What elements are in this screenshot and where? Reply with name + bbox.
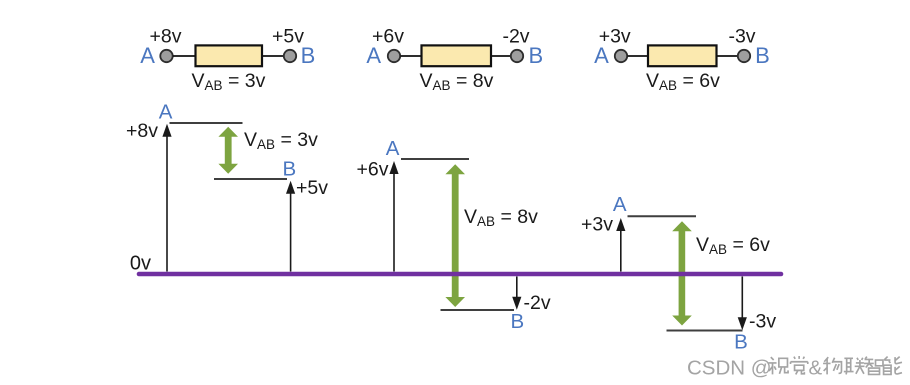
svg-text:B: B (283, 158, 297, 181)
svg-text:+3v: +3v (599, 26, 631, 48)
svg-text:+8v: +8v (150, 26, 182, 48)
svg-text:B: B (301, 43, 316, 68)
svg-text:+3v: +3v (581, 214, 613, 236)
wire circuit 2 right (491, 55, 511, 57)
B level line group 3 (667, 330, 743, 332)
svg-text:CSDN @: CSDN @ (687, 357, 772, 380)
svg-text:B: B (734, 331, 748, 354)
wire circuit 3 right (717, 55, 739, 57)
svg-text:VAB = 3v: VAB = 3v (192, 70, 266, 93)
svg-text:+5v: +5v (296, 177, 328, 199)
svg-text:A: A (386, 137, 400, 160)
watermark glyph lian (844, 358, 865, 375)
resistor R3 (648, 45, 717, 66)
svg-text:B: B (510, 310, 524, 333)
wire circuit 2 left (401, 55, 423, 57)
resistor R2 (422, 45, 492, 66)
+5v arrow group 1 (290, 191, 292, 272)
A level line group 1 (170, 122, 243, 124)
watermark glyph jue (791, 356, 808, 374)
svg-text:A: A (613, 193, 627, 216)
resistor R1 (196, 45, 263, 66)
svg-text:B: B (528, 43, 543, 68)
watermark glyph wu (823, 357, 841, 374)
svg-text:0v: 0v (130, 253, 151, 275)
watermark glyph zhi (864, 357, 883, 375)
terminal A circuit 3 (615, 50, 627, 62)
wire circuit 1 left (173, 55, 196, 57)
svg-text:VAB = 6v: VAB = 6v (696, 234, 770, 257)
green arrow VAB 6v group 3 (672, 221, 692, 325)
svg-text:-3v: -3v (749, 311, 776, 333)
terminal A circuit 2 (388, 50, 400, 62)
svg-text:+5v: +5v (272, 26, 304, 48)
+8v arrow group 1 (166, 134, 168, 272)
svg-text:-2v: -2v (524, 292, 551, 314)
svg-text:VAB = 8v: VAB = 8v (420, 70, 494, 93)
terminal B circuit 3 (738, 50, 750, 62)
svg-text:-2v: -2v (502, 26, 529, 48)
watermark glyph shi (769, 357, 789, 374)
wire circuit 1 right (262, 55, 284, 57)
terminal B circuit 2 (511, 50, 523, 62)
svg-text:VAB = 6v: VAB = 6v (646, 70, 720, 93)
svg-text:-3v: -3v (728, 26, 755, 48)
watermark glyph neng (884, 357, 902, 375)
terminal A circuit 1 (160, 50, 172, 62)
B level line group 1 (214, 178, 287, 180)
svg-text:VAB = 3v: VAB = 3v (244, 129, 318, 152)
+6v arrow group 2 (393, 172, 395, 272)
terminal B circuit 1 (284, 50, 296, 62)
green arrow VAB 3v group 1 (218, 127, 238, 174)
wire circuit 3 left (628, 55, 650, 57)
A level line group 2 (401, 158, 469, 160)
-2v arrow group 2 (516, 277, 518, 300)
-3v arrow group 3 (741, 277, 743, 321)
svg-text:&: & (809, 357, 823, 380)
green arrow VAB 8v group 2 (445, 164, 465, 307)
0v reference line (139, 272, 781, 277)
svg-text:A: A (159, 101, 173, 124)
A level line group 3 (628, 215, 697, 217)
+3v arrow group 3 (620, 229, 622, 272)
svg-text:+6v: +6v (357, 159, 389, 181)
svg-text:+6v: +6v (372, 26, 404, 48)
svg-text:VAB = 8v: VAB = 8v (464, 206, 538, 229)
svg-text:+8v: +8v (126, 120, 158, 142)
svg-text:B: B (755, 43, 770, 68)
B level line group 2 (441, 309, 515, 311)
